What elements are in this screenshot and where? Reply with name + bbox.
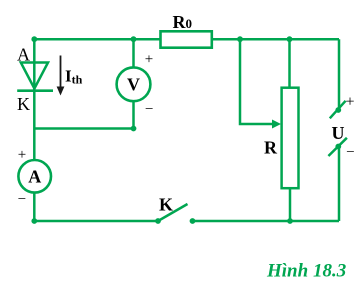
node junction dot above voltmeter xyxy=(131,36,137,42)
svg-text:V: V xyxy=(127,75,140,95)
node junction dot under voltmeter xyxy=(131,126,137,132)
wire bottom right segment xyxy=(193,220,340,223)
switch K left contact xyxy=(155,218,161,224)
svg-text:K: K xyxy=(17,94,30,114)
wire below ammeter xyxy=(33,193,36,221)
wire bottom left segment xyxy=(34,220,158,223)
svg-text:R: R xyxy=(264,138,278,158)
wire right vertical lower xyxy=(338,147,341,222)
wire above rheostat R xyxy=(288,39,291,87)
diode D cathode bar xyxy=(17,89,53,92)
ammeter A1 body xyxy=(18,160,51,193)
node junction dot bottom-left corner xyxy=(31,218,37,224)
svg-text:−: − xyxy=(145,102,153,118)
svg-text:−: − xyxy=(346,145,354,161)
svg-text:U: U xyxy=(332,123,345,143)
resistor R0 body xyxy=(161,31,212,47)
switch K right contact xyxy=(190,218,196,224)
switch K lever xyxy=(158,204,188,221)
terminal plus slash xyxy=(330,101,346,119)
svg-text:Ith: Ith xyxy=(65,67,83,87)
wire below rheostat R xyxy=(289,188,292,221)
svg-text:A: A xyxy=(28,167,41,187)
wire right vertical upper xyxy=(338,39,341,110)
node junction dot top-left xyxy=(31,36,37,42)
svg-text:K: K xyxy=(159,195,173,215)
terminal minus slash xyxy=(328,138,347,156)
svg-text:Hình 18.3: Hình 18.3 xyxy=(266,261,346,282)
svg-text:+: + xyxy=(145,52,153,68)
diode D triangle xyxy=(21,63,48,89)
terminal minus contact dot xyxy=(335,144,341,150)
voltmeter V1 body xyxy=(117,67,151,101)
terminal plus contact dot xyxy=(335,107,341,113)
wire voltmeter branch upper xyxy=(132,39,135,67)
wiper arrowhead into R xyxy=(272,120,281,129)
wire wiper tap to rheostat xyxy=(240,39,273,124)
svg-text:+: + xyxy=(345,94,354,111)
wire voltmeter branch lower xyxy=(132,101,135,128)
node junction dot above R xyxy=(287,36,293,42)
wire horizontal under voltmeter xyxy=(34,127,133,130)
wire left vertical branch xyxy=(33,39,36,160)
svg-text:−: − xyxy=(18,192,26,208)
current arrow Ith xyxy=(57,56,65,96)
svg-text:R0: R0 xyxy=(173,12,193,32)
svg-text:+: + xyxy=(18,147,26,163)
node junction dot wiper tap xyxy=(237,36,243,42)
svg-text:A: A xyxy=(17,45,30,65)
node junction dot below R xyxy=(287,218,293,224)
rheostat R body xyxy=(282,88,299,189)
wire top horizontal xyxy=(34,38,339,41)
